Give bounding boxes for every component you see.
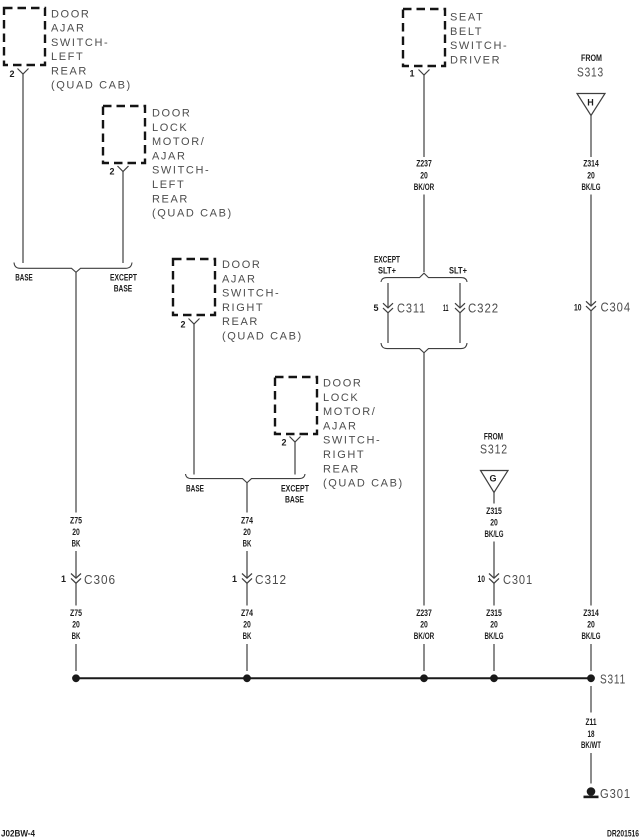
brace: split to EXCEPT SLT+ / SLT+ branches [381, 273, 467, 282]
svg-text:BASE: BASE [114, 284, 133, 294]
svg-text:20: 20 [72, 620, 80, 630]
svg-text:1: 1 [61, 574, 66, 584]
svg-text:DOOR: DOOR [152, 108, 191, 120]
svg-text:AJAR: AJAR [51, 23, 86, 35]
wire: left branch [387, 283, 389, 343]
label EXCEPT BASE [281, 484, 309, 505]
svg-text:Z314: Z314 [583, 608, 599, 618]
splice bus wire S311 [76, 677, 591, 679]
pin 2 of B4 [281, 437, 300, 448]
svg-text:(QUAD CAB): (QUAD CAB) [152, 208, 233, 220]
svg-text:MOTOR/: MOTOR/ [323, 406, 376, 418]
svg-text:20: 20 [243, 527, 251, 537]
inline connector C322 pin 11 [443, 302, 499, 316]
svg-text:REAR: REAR [51, 65, 88, 77]
svg-text:BELT: BELT [450, 26, 483, 38]
wire label Z314 20 BK/LG (lower) [582, 608, 601, 641]
connector box: DOOR LOCK MOTOR/AJAR SWITCH-LEFT REAR B2 [103, 106, 233, 220]
wire label Z315 20 BK/LG (lower) [485, 608, 504, 641]
svg-text:MOTOR/: MOTOR/ [152, 136, 205, 148]
pin 2 of B2 [109, 166, 128, 177]
brace: merge branches back [381, 343, 467, 353]
svg-text:SWITCH-: SWITCH- [450, 40, 508, 52]
svg-text:BK/LG: BK/LG [485, 529, 504, 539]
label EXCEPT SLT+ [374, 255, 400, 276]
wire: from G triangle down to splice bus [493, 493, 495, 672]
svg-text:C304: C304 [601, 301, 632, 315]
triangle connector G [481, 471, 509, 493]
svg-text:Z75: Z75 [70, 608, 82, 618]
svg-text:LOCK: LOCK [323, 392, 359, 404]
svg-text:DOOR: DOOR [323, 378, 362, 390]
svg-text:Z237: Z237 [416, 159, 432, 169]
svg-text:BK/LG: BK/LG [582, 631, 601, 641]
svg-text:AJAR: AJAR [323, 420, 358, 432]
svg-text:H: H [587, 98, 594, 108]
svg-text:G301: G301 [600, 787, 631, 801]
svg-text:5: 5 [373, 303, 378, 313]
svg-text:DOOR: DOOR [222, 259, 261, 271]
svg-text:SWITCH-: SWITCH- [222, 288, 280, 300]
svg-text:C311: C311 [397, 302, 426, 316]
svg-text:AJAR: AJAR [152, 150, 187, 162]
svg-text:Z237: Z237 [416, 608, 432, 618]
svg-text:20: 20 [490, 518, 498, 528]
svg-text:20: 20 [587, 620, 595, 630]
svg-text:Z74: Z74 [241, 516, 253, 526]
svg-text:RIGHT: RIGHT [323, 449, 365, 461]
svg-text:2: 2 [109, 167, 114, 177]
svg-text:Z74: Z74 [241, 608, 253, 618]
ground G301 [584, 787, 632, 801]
wire label Z315 20 BK/LG (upper) [485, 506, 504, 539]
junction dot [420, 674, 428, 682]
wire: B2 pin2 down to brace [122, 172, 124, 264]
svg-text:C312: C312 [255, 573, 287, 587]
svg-text:AJAR: AJAR [222, 273, 257, 285]
svg-text:SWITCH-: SWITCH- [51, 37, 109, 49]
pin 2 of B1 [9, 69, 28, 80]
wire: merged stem down to splice bus [423, 353, 425, 671]
svg-text:REAR: REAR [222, 316, 259, 328]
svg-text:20: 20 [420, 171, 428, 181]
wire: B4 pin2 down to brace [294, 442, 296, 475]
junction dot / splice S311 [587, 673, 626, 687]
svg-text:Z314: Z314 [583, 159, 599, 169]
svg-text:DOOR: DOOR [51, 8, 90, 20]
wire label Z11 18 BK/WT [581, 717, 601, 750]
svg-text:C306: C306 [84, 573, 116, 587]
svg-text:20: 20 [72, 527, 80, 537]
svg-text:FROM: FROM [581, 53, 602, 63]
inline connector C306 pin 1 [61, 573, 116, 587]
svg-text:DRIVER: DRIVER [450, 54, 501, 66]
wire label Z237 20 BK/OR (lower) [414, 608, 435, 641]
svg-text:LEFT: LEFT [152, 179, 185, 191]
junction dot [72, 674, 80, 682]
svg-text:BK: BK [243, 631, 252, 641]
wire: S311 down to ground [590, 686, 592, 784]
inline connector C301 pin 10 [478, 573, 534, 587]
svg-text:G: G [489, 474, 496, 484]
svg-text:1: 1 [232, 574, 237, 584]
svg-text:SWITCH-: SWITCH- [323, 435, 381, 447]
wire: from H triangle down [590, 116, 592, 672]
inline connector C311 pin 5 [373, 302, 426, 316]
inline connector C304 pin 10 [574, 301, 631, 315]
svg-text:C322: C322 [468, 302, 499, 316]
svg-text:Z315: Z315 [486, 608, 502, 618]
label EXCEPT BASE [110, 273, 137, 294]
svg-text:11: 11 [443, 303, 449, 313]
svg-text:2: 2 [281, 438, 286, 448]
wire label Z75 20 BK (lower) [70, 608, 82, 641]
svg-text:(QUAD CAB): (QUAD CAB) [51, 80, 132, 92]
svg-text:SLT+: SLT+ [449, 266, 467, 276]
svg-text:BASE: BASE [285, 495, 304, 505]
svg-text:BASE: BASE [15, 273, 33, 283]
svg-text:S313: S313 [577, 66, 604, 80]
brace: merge BASE / EXCEPT BASE (right pair) [186, 474, 306, 483]
svg-text:REAR: REAR [152, 193, 189, 205]
brace: merge BASE / EXCEPT BASE (left pair) [14, 263, 132, 273]
off-page source: FROM S313 [577, 53, 604, 80]
svg-text:18: 18 [588, 729, 595, 739]
svg-text:EXCEPT: EXCEPT [374, 255, 400, 265]
svg-text:BK: BK [243, 539, 252, 549]
svg-text:SWITCH-: SWITCH- [152, 165, 210, 177]
svg-text:DR201516: DR201516 [607, 829, 639, 839]
svg-text:20: 20 [490, 620, 498, 630]
connector box: DOOR AJAR SWITCH-LEFT REAR B1 [4, 8, 132, 92]
wire: B3 pin2 down to brace [193, 324, 195, 475]
svg-text:Z75: Z75 [70, 516, 82, 526]
svg-text:RIGHT: RIGHT [222, 302, 264, 314]
wire label Z75 20 BK (upper) [70, 516, 82, 549]
svg-text:BK/OR: BK/OR [414, 631, 435, 641]
svg-text:REAR: REAR [323, 463, 360, 475]
wire label Z314 20 BK/LG (upper) [582, 159, 601, 193]
triangle connector H [577, 94, 605, 116]
svg-text:20: 20 [587, 171, 595, 181]
wire: B5 pin1 down [423, 75, 425, 272]
svg-text:1: 1 [409, 69, 414, 79]
svg-text:2: 2 [9, 69, 14, 79]
svg-text:Z11: Z11 [586, 717, 597, 727]
pin 1 of B5 [409, 69, 429, 79]
svg-text:S312: S312 [480, 443, 508, 457]
svg-text:BK/WT: BK/WT [581, 740, 601, 750]
svg-text:LEFT: LEFT [51, 51, 84, 63]
svg-text:BK: BK [72, 631, 81, 641]
svg-text:10: 10 [574, 303, 582, 313]
junction dot [490, 674, 498, 682]
wire: B1 pin2 down to brace [22, 74, 24, 263]
svg-text:BK: BK [72, 539, 81, 549]
svg-text:BK/LG: BK/LG [582, 182, 601, 192]
svg-text:FROM: FROM [484, 432, 503, 442]
svg-text:EXCEPT: EXCEPT [281, 484, 309, 494]
svg-text:20: 20 [420, 620, 428, 630]
svg-text:BK/LG: BK/LG [485, 631, 504, 641]
wire: brace stem down to splice bus [246, 483, 248, 671]
svg-text:Z315: Z315 [486, 506, 502, 516]
svg-text:SLT+: SLT+ [378, 266, 396, 276]
connector box: DOOR AJAR SWITCH-RIGHT REAR B3 [173, 259, 303, 343]
svg-text:C301: C301 [503, 573, 533, 587]
off-page source: FROM S312 [480, 432, 508, 457]
connector box: DOOR LOCK MOTOR/AJAR SWITCH-RIGHT REAR B4 [275, 377, 404, 490]
svg-text:EXCEPT: EXCEPT [110, 273, 137, 283]
svg-text:(QUAD CAB): (QUAD CAB) [323, 478, 404, 490]
svg-text:LOCK: LOCK [152, 122, 188, 134]
inline connector C312 pin 1 [232, 573, 287, 587]
svg-text:(QUAD CAB): (QUAD CAB) [222, 331, 303, 343]
svg-text:J02BW-4: J02BW-4 [1, 829, 36, 839]
connector box: SEAT BELT SWITCH-DRIVER B5 [403, 9, 508, 66]
svg-text:20: 20 [243, 620, 251, 630]
junction dot [243, 674, 251, 682]
wire label Z74 20 BK (upper) [241, 516, 253, 549]
svg-text:2: 2 [180, 320, 185, 330]
pin 2 of B3 [180, 319, 199, 330]
wire: right branch [459, 283, 461, 343]
wire label Z74 20 BK (lower) [241, 608, 253, 641]
svg-text:SEAT: SEAT [450, 12, 484, 24]
svg-text:BK/OR: BK/OR [414, 182, 435, 192]
wire: brace stem down to splice bus [75, 272, 77, 671]
svg-text:S311: S311 [600, 673, 626, 687]
wire label Z237 20 BK/OR (upper) [414, 159, 435, 193]
svg-text:10: 10 [478, 574, 486, 584]
svg-text:BASE: BASE [186, 484, 204, 494]
